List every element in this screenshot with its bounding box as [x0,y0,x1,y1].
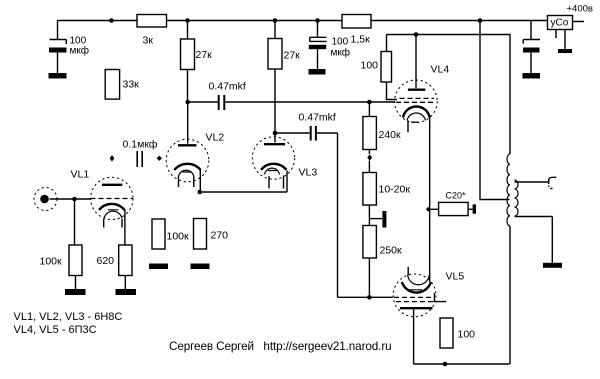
svg-text:1,5к: 1,5к [351,34,371,46]
node arrow: chain tap [367,154,372,160]
wire: secondary bottom lead [515,217,553,263]
resistor R 250k [363,226,377,298]
svg-text:100: 100 [361,60,379,72]
node: VL4 anode junction [414,32,419,37]
capacitor 0.47mkf #2 [275,126,393,297]
input jack [34,188,57,211]
resistor R 27k #1 [181,21,195,103]
node: bottom rail junction [443,362,448,367]
svg-text:100к: 100к [167,231,190,243]
transformer T1 primary winding [507,154,510,226]
resistor R 270 (floating) [194,219,207,250]
wire: secondary top lead [515,181,549,183]
wire: screen supply run y=34.5 [387,34,511,36]
ground (under C3) [523,73,541,79]
svg-text:270: 270 [211,230,229,242]
svg-text:27к: 27к [284,50,301,62]
triode VL2 [166,102,209,192]
capacitor C1 100mkf electrolytic [49,21,67,74]
svg-text:мкф: мкф [331,47,350,59]
resistor R 100 (VL5 screen, floating) [440,318,453,348]
svg-text:VL4: VL4 [431,64,450,76]
ground (under USO box) [558,49,572,53]
ground (under 620) [116,289,137,295]
value label 100 mkf (C2) [331,37,350,59]
node: VL3 anode junction [273,131,278,136]
transformer T1 primary lead (top) [509,35,511,155]
triode VL1 [91,177,134,227]
resistor R 100k (input) [69,245,82,289]
ground (under C1) [49,73,67,79]
svg-text:100: 100 [332,37,349,48]
svg-text:620: 620 [97,255,115,267]
svg-text:33к: 33к [123,79,140,91]
svg-text:мкф: мкф [70,45,89,57]
resistor R 1,5k (series in rail) [342,15,371,29]
ground (under 100k) [65,289,86,295]
svg-text:3к: 3к [143,35,154,47]
resistor R 100 (VL4 screen stopper) [381,35,397,100]
capacitor C3 100mkf electrolytic [523,21,540,74]
svg-text:0.1мкф: 0.1мкф [123,139,158,151]
svg-text:100: 100 [458,329,476,341]
ground (under floating 100k) [149,264,168,270]
resistor R 33k (floating) [105,70,119,100]
svg-text:240к: 240к [379,129,402,141]
ground (secondary) [543,263,562,268]
triode VL3 [252,133,294,189]
wire: input to VL1 grid [50,198,91,200]
value label 100 mkf (C1) [70,36,89,57]
wire: top B+ rail segments [58,21,585,22]
svg-text:уСо: уСо [551,18,569,29]
node arrow: VL2 grid tie point [157,156,162,161]
tap terminal bar (chain) [369,211,386,228]
svg-text:0.47mkf: 0.47mkf [209,81,246,93]
wire: bottom return rail [414,363,510,365]
resistor R 10-20k [363,161,377,226]
node: rail junction dots [109,18,482,23]
svg-text:10-20к: 10-20к [379,184,411,196]
svg-text:Сергеев Сергей http://sergee: Сергеев Сергей http://sergeev21.narod.ru [169,340,392,353]
resistor R 240k [363,102,377,154]
capacitor C2 100mkf electrolytic [309,21,327,70]
resistor R 100k (floating, VL2 grid) [152,219,165,249]
svg-text:VL5: VL5 [446,271,465,283]
svg-text:0.47mkf: 0.47mkf [299,112,336,124]
power unit box USO [548,16,573,50]
tetrode VL4 [395,35,438,133]
output terminal hook [549,177,557,188]
transformer T1 primary lead (bottom) [509,226,511,364]
node arrow: VL1 anode tie point [110,155,115,162]
node: VL2/VL3 cathode junction [198,190,203,195]
svg-text:VL3: VL3 [299,167,318,179]
svg-text:С20*: С20* [446,191,467,201]
ground (under floating 270) [191,264,210,270]
tetrode VL5 (inverted) [393,267,446,364]
resistor R 27k #2 [268,21,282,134]
node: input junction [72,197,77,202]
wire: VL4 cathode to VL5 [429,118,431,283]
wire: B+ to transformer tap [480,21,510,200]
wire: down to R100k [74,199,76,245]
node: grid chain top junction [367,100,372,105]
svg-text:VL4, VL5 - 6П3С: VL4, VL5 - 6П3С [14,324,97,336]
node arrow: C20 to VL4 cathode [426,207,431,212]
svg-text:VL1: VL1 [71,169,90,181]
capacitor 0.47mkf #1 [188,95,395,110]
capacitor C20* (box) [431,202,477,215]
node: VL2 anode junction [185,100,190,105]
node: grid chain bottom junction [367,295,372,300]
capacitor 0.1mkf coupling [137,151,142,167]
svg-text:VL1, VL2, VL3 - 6Н8С: VL1, VL2, VL3 - 6Н8С [14,311,123,323]
wire: cathode bus VL2-VL3 [200,171,287,193]
svg-text:100к: 100к [40,256,63,268]
svg-text:250к: 250к [380,245,403,257]
svg-text:27к: 27к [196,49,213,61]
svg-text:+400в: +400в [567,4,593,15]
ground (under C2) [309,69,326,75]
svg-text:VL2: VL2 [206,132,225,144]
resistor R 3k (series in rail) [137,15,167,28]
resistor R 620 (VL1 cathode) [119,210,132,290]
transformer T1 secondary winding [515,180,519,216]
